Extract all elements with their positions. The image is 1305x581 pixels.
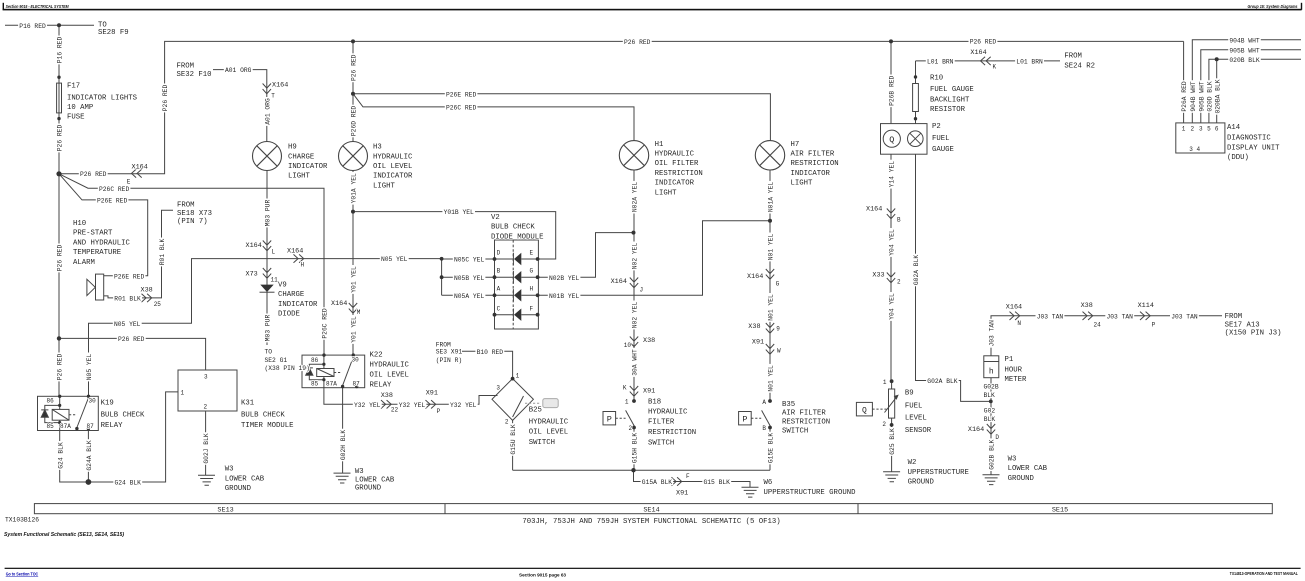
svg-text:LOWER CAB: LOWER CAB [1008, 465, 1048, 473]
svg-text:SE13: SE13 [217, 506, 233, 514]
svg-text:HYDRAULIC: HYDRAULIC [373, 153, 413, 161]
svg-text:SE24 R2: SE24 R2 [1064, 63, 1095, 71]
svg-text:H10: H10 [73, 220, 86, 228]
svg-text:DIODE: DIODE [278, 311, 300, 319]
svg-text:LIGHT: LIGHT [288, 173, 311, 181]
svg-text:HOUR: HOUR [1005, 366, 1023, 374]
svg-text:SE18 X73: SE18 X73 [177, 210, 212, 218]
svg-text:OIL LEVEL: OIL LEVEL [529, 429, 568, 437]
svg-text:J03 TAN: J03 TAN [989, 320, 996, 347]
svg-text:GROUND: GROUND [1008, 475, 1035, 483]
svg-text:P26D RED: P26D RED [351, 106, 358, 136]
svg-text:FROM: FROM [177, 63, 195, 71]
svg-text:Go to Section TOC: Go to Section TOC [6, 571, 39, 576]
svg-text:SE28 F9: SE28 F9 [98, 29, 129, 37]
svg-text:SWITCH: SWITCH [648, 439, 674, 447]
svg-text:V9: V9 [278, 282, 287, 290]
svg-text:CHARGE: CHARGE [288, 153, 314, 161]
svg-text:M03 PUR: M03 PUR [265, 315, 272, 342]
svg-text:P: P [607, 414, 612, 424]
svg-text:G24 BLK: G24 BLK [57, 442, 64, 469]
svg-text:SE3 X91: SE3 X91 [436, 349, 463, 356]
svg-text:W: W [777, 347, 781, 354]
svg-text:(X38 PIN 19): (X38 PIN 19) [265, 365, 310, 372]
svg-text:SE15: SE15 [1052, 506, 1068, 514]
svg-text:H3: H3 [373, 144, 382, 152]
svg-text:10 AMP: 10 AMP [67, 104, 93, 112]
svg-text:Y32 YEL: Y32 YEL [450, 402, 477, 409]
svg-text:N05 YEL: N05 YEL [86, 354, 93, 381]
svg-text:N02 YEL: N02 YEL [632, 243, 639, 270]
svg-text:P2: P2 [932, 123, 941, 131]
svg-text:N01 YEL: N01 YEL [768, 294, 775, 321]
svg-text:FUEL: FUEL [932, 135, 950, 143]
svg-text:G: G [776, 281, 780, 288]
svg-text:B: B [497, 268, 501, 275]
svg-text:P26 RED: P26 RED [57, 125, 64, 152]
svg-text:FUEL GAUGE: FUEL GAUGE [930, 86, 974, 94]
svg-text:W2: W2 [908, 459, 917, 467]
svg-text:904B WHT: 904B WHT [1190, 81, 1197, 111]
svg-text:FUEL: FUEL [905, 402, 923, 410]
svg-text:P26 RED: P26 RED [624, 39, 651, 46]
svg-text:Y01B YEL: Y01B YEL [444, 209, 474, 216]
svg-text:G02A BLK: G02A BLK [927, 378, 957, 385]
svg-text:A01 ORG: A01 ORG [264, 98, 271, 125]
svg-text:X33: X33 [872, 272, 884, 280]
svg-text:N: N [1017, 320, 1021, 327]
svg-text:B25: B25 [529, 407, 542, 415]
svg-text:(DDU): (DDU) [1227, 154, 1249, 162]
svg-text:1: 1 [883, 379, 887, 386]
svg-text:HYDRAULIC: HYDRAULIC [655, 151, 695, 159]
svg-text:N05B YEL: N05B YEL [454, 275, 484, 282]
svg-text:3: 3 [496, 385, 500, 392]
svg-text:P: P [437, 408, 441, 415]
svg-text:2: 2 [629, 425, 633, 432]
svg-text:FROM: FROM [436, 341, 451, 348]
svg-text:FROM: FROM [1225, 313, 1243, 321]
svg-text:H: H [530, 286, 534, 293]
svg-text:X164: X164 [968, 426, 984, 434]
svg-text:F: F [530, 306, 534, 313]
svg-text:FILTER: FILTER [648, 419, 675, 427]
svg-text:INDICATOR: INDICATOR [288, 163, 328, 171]
svg-text:1: 1 [516, 373, 520, 380]
svg-text:UPPERSTRUCTURE GROUND: UPPERSTRUCTURE GROUND [764, 489, 857, 497]
svg-text:E: E [127, 179, 131, 186]
svg-text:Y32 YEL: Y32 YEL [354, 402, 381, 409]
svg-text:CHARGE: CHARGE [278, 291, 304, 299]
svg-text:RELAY: RELAY [370, 381, 393, 389]
svg-text:B: B [762, 425, 766, 432]
svg-text:F17: F17 [67, 82, 80, 90]
svg-text:P26C RED: P26C RED [446, 105, 476, 112]
svg-text:A14: A14 [1227, 124, 1241, 132]
svg-text:LEVEL: LEVEL [905, 415, 927, 423]
svg-text:SENSOR: SENSOR [905, 427, 932, 435]
svg-text:RESTRICTION: RESTRICTION [648, 429, 696, 437]
svg-text:LIGHT: LIGHT [373, 182, 396, 190]
svg-text:G15A BLK: G15A BLK [642, 479, 672, 486]
svg-text:P26E RED: P26E RED [446, 91, 476, 98]
svg-text:X164: X164 [246, 242, 262, 250]
svg-text:X164: X164 [132, 164, 148, 172]
svg-text:X164: X164 [287, 248, 303, 256]
svg-text:N02A YEL: N02A YEL [632, 182, 639, 212]
svg-text:K19: K19 [101, 399, 114, 407]
svg-text:AND HYDRAULIC: AND HYDRAULIC [73, 239, 131, 247]
svg-text:85: 85 [47, 423, 55, 430]
svg-text:X38: X38 [643, 337, 655, 345]
svg-text:J: J [640, 286, 644, 293]
svg-text:HYDRAULIC: HYDRAULIC [370, 362, 410, 370]
svg-text:9: 9 [776, 325, 780, 332]
svg-text:BULB CHECK: BULB CHECK [491, 224, 535, 232]
svg-text:LIGHT: LIGHT [655, 189, 678, 197]
svg-text:Q: Q [889, 135, 894, 145]
svg-text:P26B RED: P26B RED [889, 75, 896, 105]
svg-text:F: F [686, 473, 690, 480]
svg-text:020BA BLK: 020BA BLK [1214, 79, 1221, 113]
svg-text:P26 RED: P26 RED [57, 354, 64, 381]
svg-text:P: P [742, 414, 747, 424]
svg-text:P26 RED: P26 RED [80, 171, 107, 178]
svg-text:G02A BLK: G02A BLK [913, 255, 920, 285]
svg-text:SE2 G1: SE2 G1 [265, 357, 288, 364]
svg-text:Y04 YEL: Y04 YEL [889, 293, 896, 320]
svg-text:B18: B18 [648, 398, 661, 406]
svg-text:K31: K31 [241, 399, 255, 407]
svg-text:N01A YEL: N01A YEL [768, 182, 775, 212]
svg-text:P26E RED: P26E RED [114, 273, 144, 280]
svg-text:2: 2 [1190, 126, 1194, 133]
svg-text:N05 YEL: N05 YEL [114, 321, 141, 328]
svg-text:INDICATOR LIGHTS: INDICATOR LIGHTS [67, 94, 138, 102]
svg-text:B10 RED: B10 RED [477, 349, 504, 356]
svg-text:87A: 87A [326, 380, 337, 387]
svg-text:X38: X38 [141, 286, 153, 294]
svg-text:2: 2 [897, 279, 901, 286]
svg-text:P1: P1 [1005, 356, 1014, 364]
svg-text:1: 1 [1182, 126, 1186, 133]
svg-text:N01B YEL: N01B YEL [549, 293, 579, 300]
svg-text:FROM: FROM [177, 202, 195, 210]
svg-text:X164: X164 [272, 82, 288, 90]
svg-text:LOWER CAB: LOWER CAB [355, 476, 395, 484]
svg-text:G02J BLK: G02J BLK [203, 433, 210, 463]
svg-text:A: A [497, 286, 501, 293]
svg-text:904B WHT: 904B WHT [1229, 37, 1259, 44]
svg-text:B: B [897, 216, 901, 223]
svg-text:G02: G02 [984, 408, 996, 415]
svg-text:10: 10 [624, 342, 632, 349]
svg-text:30A WHT: 30A WHT [632, 349, 639, 376]
svg-text:TX14813-OPERATION AND TEST MAN: TX14813-OPERATION AND TEST MANUAL [1230, 571, 1298, 576]
svg-text:1: 1 [625, 398, 629, 405]
svg-text:TIMER MODULE: TIMER MODULE [241, 422, 294, 430]
svg-text:INDICATOR: INDICATOR [791, 170, 831, 178]
svg-text:X164: X164 [611, 278, 627, 286]
svg-text:Y04 YEL: Y04 YEL [889, 229, 896, 256]
svg-text:HYDRAULIC: HYDRAULIC [529, 418, 569, 426]
svg-text:GAUGE: GAUGE [932, 146, 954, 154]
svg-text:FUSE: FUSE [67, 113, 85, 121]
svg-text:RESTRICTION: RESTRICTION [655, 170, 703, 178]
svg-text:X164: X164 [747, 273, 763, 281]
svg-text:G15 BLK: G15 BLK [704, 479, 731, 486]
svg-text:G15U BLK: G15U BLK [510, 424, 517, 454]
svg-text:K: K [993, 63, 997, 70]
svg-text:L01 BRN: L01 BRN [1016, 59, 1043, 66]
svg-text:G25 BLK: G25 BLK [889, 428, 896, 455]
svg-text:5: 5 [1207, 126, 1211, 133]
svg-text:W3: W3 [355, 468, 364, 476]
svg-text:(PIN R): (PIN R) [436, 357, 462, 364]
svg-text:W3: W3 [225, 465, 234, 473]
svg-text:H1: H1 [655, 141, 664, 149]
svg-text:T: T [271, 93, 275, 100]
svg-text:N02 YEL: N02 YEL [632, 302, 639, 329]
svg-text:INDICATOR: INDICATOR [373, 173, 413, 181]
svg-text:BLK: BLK [984, 392, 996, 399]
svg-text:X91: X91 [643, 387, 655, 395]
svg-text:SE17 A13: SE17 A13 [1225, 322, 1260, 330]
svg-text:X91: X91 [676, 489, 688, 497]
svg-text:Section 9015 page 63: Section 9015 page 63 [519, 572, 566, 577]
svg-text:X38: X38 [748, 323, 760, 331]
svg-text:P26 RED: P26 RED [351, 54, 358, 81]
svg-text:P26 RED: P26 RED [162, 85, 169, 112]
svg-text:UPPERSTRUCTURE: UPPERSTRUCTURE [908, 469, 969, 477]
svg-text:G15E BLK: G15E BLK [768, 433, 775, 463]
svg-text:BACKLIGHT: BACKLIGHT [930, 96, 970, 104]
svg-text:D: D [995, 434, 999, 441]
svg-text:SE32 F10: SE32 F10 [177, 71, 212, 79]
svg-text:BULB CHECK: BULB CHECK [241, 411, 285, 419]
svg-text:J03 TAN: J03 TAN [1037, 313, 1064, 320]
svg-text:DISPLAY UNIT: DISPLAY UNIT [1227, 145, 1280, 153]
svg-text:P: P [1152, 322, 1156, 329]
svg-text:GROUND: GROUND [355, 485, 382, 493]
svg-text:K22: K22 [370, 352, 383, 360]
svg-text:D: D [497, 250, 501, 257]
svg-text:P16 RED: P16 RED [19, 23, 46, 30]
svg-text:P16 RED: P16 RED [57, 37, 64, 64]
svg-text:INDICATOR: INDICATOR [655, 180, 695, 188]
svg-text:L: L [272, 249, 276, 256]
svg-text:E: E [530, 250, 534, 257]
svg-text:P26 RED: P26 RED [118, 336, 145, 343]
svg-text:X164: X164 [970, 49, 986, 57]
svg-text:SE14: SE14 [643, 506, 659, 514]
svg-text:N01 YEL: N01 YEL [768, 234, 775, 261]
svg-text:2: 2 [204, 403, 208, 410]
svg-text:Y32 YEL: Y32 YEL [399, 402, 426, 409]
svg-text:P26 RED: P26 RED [970, 39, 997, 46]
svg-text:H9: H9 [288, 144, 297, 152]
svg-text:87: 87 [353, 380, 361, 387]
svg-text:P26 RED: P26 RED [57, 245, 64, 272]
svg-text:GROUND: GROUND [225, 485, 252, 493]
svg-text:R01 BLK: R01 BLK [159, 239, 166, 266]
svg-text:RESTRICTION: RESTRICTION [791, 160, 839, 168]
svg-text:RESISTOR: RESISTOR [930, 106, 966, 114]
svg-text:Y01 YEL: Y01 YEL [351, 316, 358, 343]
svg-text:P26A RED: P26A RED [1181, 81, 1188, 111]
svg-text:X164: X164 [866, 206, 882, 214]
svg-text:G02H BLK: G02H BLK [340, 430, 347, 460]
svg-text:INDICATOR: INDICATOR [278, 301, 318, 309]
svg-text:SWITCH: SWITCH [529, 439, 555, 447]
svg-text:W3: W3 [1008, 456, 1017, 464]
svg-text:G02B: G02B [984, 384, 999, 391]
svg-text:SWITCH: SWITCH [782, 428, 808, 436]
svg-text:AIR FILTER: AIR FILTER [791, 151, 835, 159]
svg-text:W6: W6 [764, 479, 773, 487]
svg-text:M03 PUR: M03 PUR [265, 200, 272, 227]
svg-text:X164: X164 [331, 300, 347, 308]
svg-text:87: 87 [87, 423, 95, 430]
svg-text:TX103B126: TX103B126 [5, 516, 39, 523]
svg-text:AIR FILTER: AIR FILTER [782, 410, 826, 418]
svg-text:N05A YEL: N05A YEL [454, 293, 484, 300]
svg-text:905B WHT: 905B WHT [1198, 81, 1205, 111]
svg-text:DIAGNOSTIC: DIAGNOSTIC [1227, 135, 1271, 143]
svg-text:M: M [357, 309, 361, 316]
svg-text:N01 YEL: N01 YEL [768, 365, 775, 392]
svg-text:11: 11 [271, 277, 279, 284]
svg-text:METER: METER [1005, 376, 1028, 384]
svg-text:G15H BLK: G15H BLK [632, 433, 639, 463]
svg-text:V2: V2 [491, 214, 500, 222]
svg-text:PRE-START: PRE-START [73, 230, 113, 238]
svg-text:G24 BLK: G24 BLK [115, 480, 142, 487]
svg-text:2: 2 [882, 421, 886, 428]
svg-text:B9: B9 [905, 390, 914, 398]
svg-text:TEMPERATURE: TEMPERATURE [73, 249, 121, 257]
svg-text:020B BLK: 020B BLK [1229, 57, 1259, 64]
svg-text:X38: X38 [381, 392, 393, 400]
svg-text:A01 ORG: A01 ORG [225, 67, 252, 74]
svg-text:BULB CHECK: BULB CHECK [101, 411, 145, 419]
svg-text:6: 6 [1215, 126, 1219, 133]
svg-text:R10: R10 [930, 75, 943, 83]
svg-text:C: C [497, 306, 501, 313]
svg-text:(X150 PIN J3): (X150 PIN J3) [1225, 329, 1282, 337]
svg-text:B35: B35 [782, 401, 795, 409]
svg-text:P26E RED: P26E RED [97, 198, 127, 205]
svg-text:1: 1 [181, 390, 185, 397]
svg-text:N05 YEL: N05 YEL [381, 256, 408, 263]
svg-text:G02B BLK: G02B BLK [989, 439, 996, 469]
svg-text:A: A [762, 399, 766, 406]
svg-text:Y01A YEL: Y01A YEL [351, 173, 358, 203]
svg-text:J03 TAN: J03 TAN [1107, 313, 1134, 320]
svg-text:FROM: FROM [1064, 52, 1082, 60]
svg-text:BLK: BLK [984, 416, 996, 423]
svg-text:905B WHT: 905B WHT [1229, 47, 1259, 54]
svg-text:020D BLK: 020D BLK [1207, 81, 1214, 111]
svg-text:H7: H7 [791, 141, 800, 149]
svg-text:86: 86 [47, 398, 55, 405]
svg-text:Group 15: System Diagrams: Group 15: System Diagrams [1248, 4, 1298, 9]
svg-text:RESTRICTION: RESTRICTION [782, 418, 830, 426]
svg-text:System Functional Schematic (S: System Functional Schematic (SE13, SE14,… [4, 532, 124, 538]
svg-text:G24A BLK: G24A BLK [86, 440, 93, 470]
svg-text:TO: TO [265, 349, 273, 356]
svg-text:J03 TAN: J03 TAN [1171, 313, 1198, 320]
svg-text:OIL LEVEL: OIL LEVEL [370, 372, 409, 380]
svg-text:X91: X91 [426, 390, 438, 398]
svg-text:85: 85 [311, 380, 319, 387]
svg-text:87A: 87A [60, 423, 71, 430]
svg-text:24: 24 [1094, 322, 1102, 329]
svg-text:N02B YEL: N02B YEL [549, 275, 579, 282]
svg-text:RELAY: RELAY [101, 422, 124, 430]
svg-text:P26C RED: P26C RED [99, 186, 129, 193]
svg-text:ALARM: ALARM [73, 259, 95, 267]
svg-text:25: 25 [154, 301, 162, 308]
svg-text:22: 22 [391, 407, 399, 414]
svg-text:G: G [530, 268, 534, 275]
svg-text:X38: X38 [1081, 302, 1093, 310]
svg-text:h: h [989, 368, 994, 377]
svg-text:H: H [301, 262, 305, 269]
svg-text:X91: X91 [752, 339, 764, 347]
svg-text:DIODE MODULE: DIODE MODULE [491, 233, 544, 241]
svg-text:86: 86 [311, 357, 319, 364]
svg-text:3: 3 [204, 374, 208, 381]
svg-text:P26C RED: P26C RED [322, 308, 329, 338]
svg-text:703JH, 753JH AND 759JH SYSTEM: 703JH, 753JH AND 759JH SYSTEM FUNCTIONAL… [522, 518, 780, 526]
svg-text:Y14 YEL: Y14 YEL [889, 161, 896, 188]
svg-text:HYDRAULIC: HYDRAULIC [648, 409, 688, 417]
svg-text:X73: X73 [246, 271, 258, 279]
svg-text:LOWER CAB: LOWER CAB [225, 475, 265, 483]
svg-text:R01 BLK: R01 BLK [114, 296, 141, 303]
svg-text:Y01 YEL: Y01 YEL [351, 266, 358, 293]
svg-text:K: K [623, 385, 627, 392]
svg-text:L01 BRN: L01 BRN [927, 59, 954, 66]
svg-text:X164: X164 [1006, 304, 1022, 312]
svg-text:X114: X114 [1138, 302, 1154, 310]
svg-text:(PIN 7): (PIN 7) [177, 218, 208, 226]
svg-text:OIL LEVEL: OIL LEVEL [373, 163, 412, 171]
svg-text:Section 9015 - ELECTRICAL SYST: Section 9015 - ELECTRICAL SYSTEM [6, 4, 69, 9]
svg-text:2: 2 [505, 418, 509, 425]
svg-text:3: 3 [1199, 126, 1203, 133]
svg-text:LIGHT: LIGHT [791, 180, 814, 188]
svg-text:N05C YEL: N05C YEL [454, 257, 484, 264]
svg-text:30: 30 [89, 398, 97, 405]
svg-text:OIL FILTER: OIL FILTER [655, 160, 699, 168]
svg-text:3 4: 3 4 [1189, 146, 1200, 153]
svg-text:30: 30 [352, 357, 360, 364]
svg-text:GROUND: GROUND [908, 479, 935, 487]
svg-text:Q: Q [862, 406, 867, 415]
